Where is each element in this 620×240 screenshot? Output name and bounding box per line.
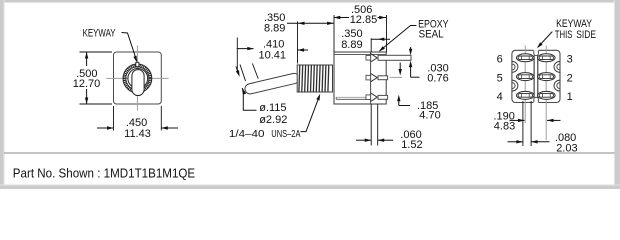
- front view keyway notch: [136, 62, 139, 66]
- dimension .410/10.41: right outside arrow: [298, 49, 308, 51]
- EPOXY SEAL leader: [380, 26, 417, 52]
- front view horizontal centerline: [106, 77, 168, 79]
- terminal view column centerline left: [524, 46, 526, 124]
- svg-text:4.70: 4.70: [419, 110, 440, 122]
- dimension .506/12.85: extension line right: [386, 15, 388, 52]
- front view: switch body square: [114, 52, 162, 104]
- ø.115 lower arrow and leader to text: [242, 88, 246, 95]
- svg-text:0.76: 0.76: [427, 73, 448, 85]
- thread spec leader: [301, 98, 319, 131]
- dimension .080/2.03: arrows: [508, 141, 523, 143]
- keyway notch top: [533, 49, 539, 52]
- svg-text:6: 6: [497, 53, 503, 65]
- bushing axis centerline stub right of body: [390, 76, 403, 78]
- svg-text:UNS–2A: UNS–2A: [271, 128, 300, 139]
- svg-text:ø2.92: ø2.92: [259, 114, 287, 126]
- dimension .080/2.03: extension lines: [522, 101, 524, 146]
- side view threaded bushing: [297, 65, 332, 92]
- terminal pad row 1 col 2: [538, 54, 556, 62]
- svg-text:KEYWAY: KEYWAY: [83, 27, 116, 40]
- diameter dimension ø.115/ø2.92: slanted extension lines at lever tip: [240, 65, 246, 82]
- body inner top line: [334, 53, 386, 55]
- front view vertical centerline: [136, 46, 138, 111]
- terminal pad row 2 col 1: [517, 73, 535, 81]
- terminal pad row 3 col 1: [517, 91, 535, 99]
- dimension .450/11.43: extension lines: [113, 106, 115, 131]
- terminal row 2 stub: [378, 76, 388, 80]
- front view threaded bushing ring: [123, 64, 152, 93]
- dimension .506/12.85: line and arrows: [334, 17, 349, 19]
- terminal row 3 internal contact: [366, 95, 371, 100]
- svg-text:11.43: 11.43: [124, 128, 151, 140]
- drawing border frame: [0, 0, 620, 2]
- svg-text:2.03: 2.03: [556, 143, 577, 155]
- terminal pad row 3 col 2: [538, 91, 556, 99]
- side view toggle lever (angled bat): [244, 72, 300, 95]
- terminal pad row 2 col 2: [538, 73, 556, 81]
- KEYWAY THIS SIDE leader: [538, 32, 552, 47]
- keyway channel grooves: [533, 56, 535, 98]
- svg-text:1: 1: [567, 91, 573, 103]
- svg-text:5: 5: [497, 72, 503, 84]
- dimension .500/12.70: dimension line and arrows: [86, 52, 88, 66]
- dimension .350/8.89 (body/seal): extension line: [370, 38, 372, 52]
- svg-text:2: 2: [567, 72, 573, 84]
- svg-text:4.83: 4.83: [494, 121, 515, 133]
- svg-text:12.70: 12.70: [73, 78, 101, 90]
- body internal vertical wall: [370, 52, 372, 104]
- dimension .350/8.89 (body/seal): line and arrow: [371, 38, 390, 40]
- terminal row 1 internal contact: [366, 56, 371, 61]
- bushing thread hatching: [299, 65, 329, 91]
- side notch scallops at y=66.9 on terminal view body edges: [512, 61, 518, 72]
- side view switch body: [334, 52, 386, 104]
- svg-text:THIS: THIS: [555, 29, 573, 42]
- front view toggle lever (stadium): [132, 70, 144, 96]
- svg-text:8.89: 8.89: [341, 39, 362, 51]
- dimension .410/10.41 (lever length): slanted extension line at tip: [236, 38, 238, 72]
- dimension .350/8.89 (bushing length): extension lines: [297, 22, 299, 64]
- terminal view column centerline right: [545, 46, 547, 141]
- svg-text:1/4–40: 1/4–40: [229, 128, 265, 139]
- svg-text:8.89: 8.89: [264, 23, 285, 35]
- dimension .190/4.83: line and arrows: [510, 119, 525, 121]
- dimension .500/12.70: extension lines: [80, 51, 113, 53]
- svg-text:Part No. Shown : 1MD1T1B1M1QE: Part No. Shown : 1MD1T1B1M1QE: [13, 166, 195, 181]
- dimension .450/11.43: arrows: [97, 127, 114, 129]
- ø.115 outside arrow upper: [236, 67, 239, 75]
- terminal row 2 internal contact: [366, 75, 371, 80]
- svg-text:4: 4: [497, 91, 503, 103]
- svg-text:1.52: 1.52: [401, 139, 422, 151]
- dimension .060/1.52: extension lines below body: [370, 104, 372, 146]
- svg-text:10.41: 10.41: [259, 50, 287, 62]
- KEYWAY leader line: [122, 33, 137, 62]
- terminal row 3 stub: [378, 95, 388, 99]
- dimension .030/0.76: arrows at terminal 1: [410, 47, 412, 50]
- dimension .350/8.89 (bushing length): line and arrows: [287, 22, 334, 24]
- svg-text:SEAL: SEAL: [419, 29, 444, 41]
- dimension .185/4.70: arrows: [399, 63, 401, 70]
- terminal view body: [512, 50, 560, 102]
- keyway notch bottom: [533, 100, 539, 103]
- svg-text:12.85: 12.85: [350, 14, 378, 26]
- dimension .060/1.52: arrows: [356, 139, 371, 141]
- dimension .410/10.41: left outside arrow: [237, 48, 254, 50]
- front view bushing inner circle: [128, 69, 148, 89]
- title block divider line: [4, 152, 615, 154]
- svg-text:3: 3: [567, 53, 573, 65]
- svg-text:SIDE: SIDE: [576, 29, 596, 41]
- side notch scallops at y=85.6 on terminal view body edges: [512, 80, 518, 91]
- body inner bottom lines: [336, 96, 370, 98]
- terminal pad row 1 col 1: [517, 54, 535, 62]
- svg-text:ø.115: ø.115: [259, 102, 286, 114]
- terminal 1 lug (full bar): [378, 55, 411, 60]
